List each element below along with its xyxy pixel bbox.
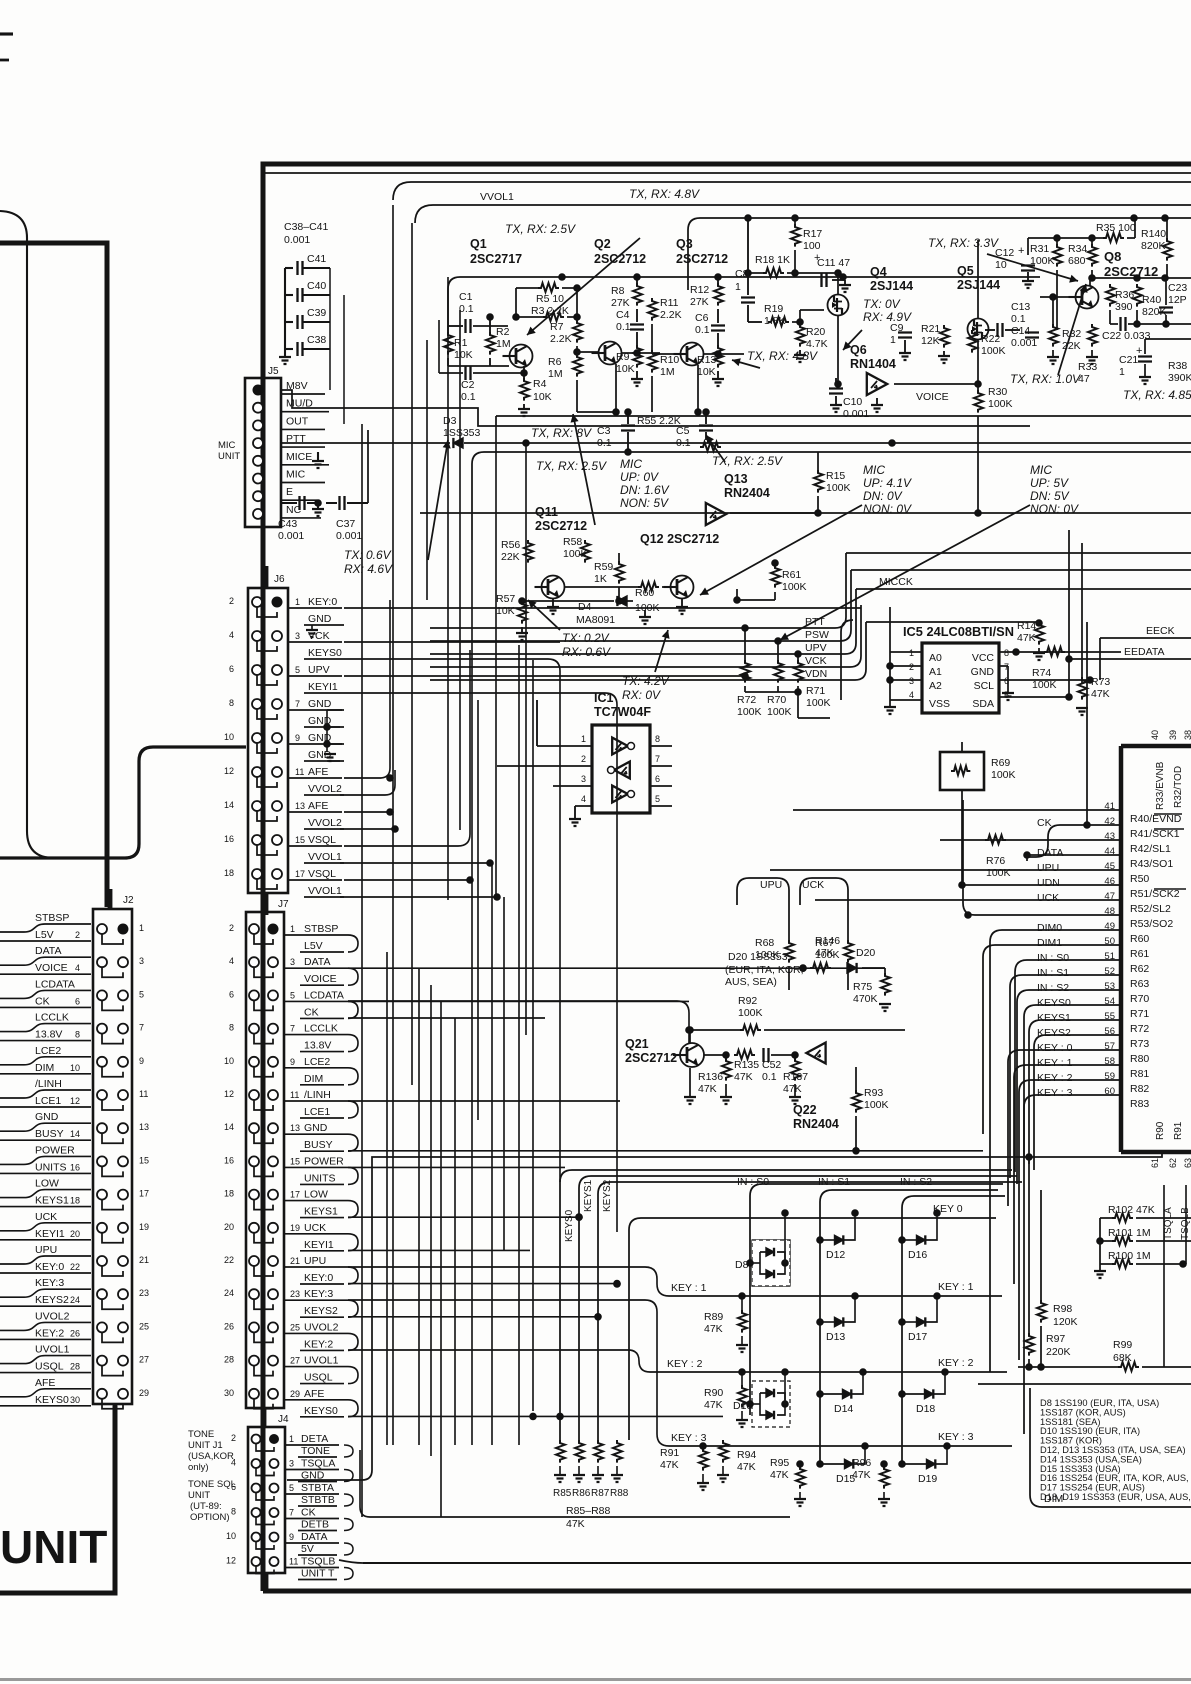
wire IC pin54 fan xyxy=(1024,1005,1121,1158)
svg-text:21: 21 xyxy=(139,1255,149,1265)
svg-text:TONE: TONE xyxy=(301,1445,330,1457)
svg-text:Q1: Q1 xyxy=(470,237,487,251)
svg-text:UVOL1: UVOL1 xyxy=(35,1344,70,1356)
svg-text:DIM0: DIM0 xyxy=(1037,922,1062,934)
svg-text:2: 2 xyxy=(229,923,234,933)
wire top bus 3 xyxy=(700,217,1191,219)
ground (D4) xyxy=(644,610,646,616)
wire J7 pair hook 13 xyxy=(348,1134,358,1151)
svg-text:BUSY: BUSY xyxy=(35,1128,64,1140)
svg-text:11: 11 xyxy=(289,1557,298,1567)
ground (R57) xyxy=(521,627,523,632)
resistor R5 10 xyxy=(538,283,559,292)
J7 pin row 27 xyxy=(249,1356,259,1366)
svg-text:R40/EVND: R40/EVND xyxy=(1130,813,1182,825)
wire J7 pair hook 29 xyxy=(348,1400,358,1417)
svg-text:38: 38 xyxy=(1183,730,1191,740)
connector J4 box xyxy=(248,1427,285,1573)
wire J6 VVOL2a xyxy=(340,770,395,795)
wire vertical bus x=460 xyxy=(459,310,461,830)
svg-text:R50: R50 xyxy=(1130,873,1149,885)
svg-text:R95: R95 xyxy=(770,1457,789,1469)
ground (Q12 em) xyxy=(681,599,683,606)
J7 pin row 5 xyxy=(249,990,259,1000)
svg-text:UPV: UPV xyxy=(308,664,330,676)
arrow MIC5V annotation xyxy=(780,505,1030,640)
capacitor C38 xyxy=(298,342,303,356)
svg-text:UVOL2: UVOL2 xyxy=(35,1310,70,1322)
svg-text:R22: R22 xyxy=(981,333,1000,345)
svg-text:1: 1 xyxy=(295,597,300,607)
J2 pin row 13 xyxy=(97,1123,107,1133)
svg-text:RN2404: RN2404 xyxy=(793,1117,839,1131)
wire EECK xyxy=(1100,637,1191,639)
svg-text:15: 15 xyxy=(139,1155,149,1165)
J2 pin row 23 xyxy=(97,1289,107,1299)
svg-text:R41/SCK1: R41/SCK1 xyxy=(1130,828,1180,840)
IC pin overline R40/EVND xyxy=(1154,813,1182,815)
svg-text:KEY:2: KEY:2 xyxy=(304,1338,333,1350)
svg-text:LCE1: LCE1 xyxy=(35,1095,61,1107)
svg-text:C11 47: C11 47 xyxy=(817,257,850,269)
svg-text:TSQLA: TSQLA xyxy=(301,1458,335,1470)
svg-text:R53/SO2: R53/SO2 xyxy=(1130,918,1173,930)
svg-text:TX, RX: 1.0V: TX, RX: 1.0V xyxy=(1010,372,1081,386)
svg-text:(USA,KOR: (USA,KOR xyxy=(188,1451,234,1462)
wire top bus VVOL1 lower xyxy=(415,205,1191,223)
svg-text:KEYS2: KEYS2 xyxy=(602,1179,613,1212)
svg-text:10: 10 xyxy=(995,259,1007,271)
svg-text:4.7K: 4.7K xyxy=(806,338,828,350)
svg-text:100K: 100K xyxy=(806,697,831,709)
svg-text:NON: 0V: NON: 0V xyxy=(863,502,912,516)
ground (C38-C41) xyxy=(284,349,286,356)
svg-text:R30: R30 xyxy=(988,386,1007,398)
svg-text:KEYS1: KEYS1 xyxy=(583,1179,594,1212)
wire J2 bottom stub xyxy=(113,1404,118,1591)
inverter IC1-b xyxy=(614,762,630,779)
J6 pin row 7 xyxy=(252,699,262,709)
svg-text:R32/TOD: R32/TOD xyxy=(1173,766,1184,808)
svg-text:28: 28 xyxy=(70,1362,80,1372)
J2 pin row 5 xyxy=(97,990,107,1000)
wire IC pin48 xyxy=(963,800,1121,915)
svg-text:13: 13 xyxy=(290,1123,300,1133)
wire J6 GND pin2 xyxy=(311,625,313,629)
svg-text:0.1: 0.1 xyxy=(461,391,476,403)
svg-text:6: 6 xyxy=(655,774,660,784)
svg-text:30: 30 xyxy=(224,1388,234,1398)
wire J7 pair hook 3 xyxy=(348,968,358,985)
svg-text:DETA: DETA xyxy=(301,1433,328,1445)
svg-text:CK: CK xyxy=(35,995,50,1007)
svg-text:C43: C43 xyxy=(278,518,297,530)
svg-text:0.001: 0.001 xyxy=(278,530,304,542)
svg-text:47K: 47K xyxy=(566,1518,585,1530)
svg-text:KEY : 0: KEY : 0 xyxy=(1037,1042,1073,1054)
J6 pin row 17 xyxy=(252,869,262,879)
svg-text:30: 30 xyxy=(70,1395,80,1405)
svg-text:R52/SL2: R52/SL2 xyxy=(1130,903,1171,915)
wire rail 622 xyxy=(866,621,1039,623)
svg-text:100K: 100K xyxy=(981,345,1006,357)
wire vertical bus x=431 xyxy=(430,985,432,1456)
capacitor C43 0.001 xyxy=(300,496,305,510)
svg-text:7: 7 xyxy=(139,1023,144,1033)
svg-text:5: 5 xyxy=(290,990,295,1000)
svg-text:R92: R92 xyxy=(738,995,757,1007)
svg-text:DN: 1.6V: DN: 1.6V xyxy=(620,483,670,497)
wire page top-left tick marks xyxy=(0,32,13,35)
svg-text:R72: R72 xyxy=(1130,1023,1149,1035)
connector J7 box xyxy=(246,912,284,1408)
wire J6 VVOL2b xyxy=(340,828,395,830)
svg-text:VOICE: VOICE xyxy=(916,391,949,403)
svg-text:R137: R137 xyxy=(783,1071,808,1083)
resistor R69 (boxed) xyxy=(940,752,984,790)
wire IC pin42 CK xyxy=(1027,825,1121,857)
wire left vertical thin xyxy=(0,867,54,869)
wire DIM rail xyxy=(1019,1383,1191,1385)
resistor R88 47K xyxy=(613,1440,622,1463)
svg-text:R83: R83 xyxy=(1130,1098,1149,1110)
svg-text:2: 2 xyxy=(909,662,914,672)
svg-text:R96: R96 xyxy=(852,1457,871,1469)
svg-text:L5V: L5V xyxy=(35,929,54,941)
wire D10 to KEY2 xyxy=(784,1372,786,1404)
resistor R87 47K xyxy=(594,1440,603,1463)
wire KEY0 rail 602 xyxy=(344,607,861,609)
svg-text:C40: C40 xyxy=(307,280,326,292)
svg-text:C38: C38 xyxy=(307,334,326,346)
svg-text:R56: R56 xyxy=(501,539,520,551)
svg-text:40: 40 xyxy=(1150,730,1160,740)
diode D12 xyxy=(835,1235,844,1244)
wire vertical bus x=472 xyxy=(471,540,473,1445)
svg-text:R36: R36 xyxy=(1115,289,1134,301)
svg-text:R62: R62 xyxy=(1130,963,1149,975)
svg-text:LCE2: LCE2 xyxy=(35,1045,61,1057)
svg-text:R87: R87 xyxy=(591,1488,610,1499)
connector J6 box xyxy=(248,588,288,893)
J2 pin row 7 xyxy=(97,1024,107,1034)
svg-text:10K: 10K xyxy=(496,605,515,617)
svg-text:R73: R73 xyxy=(1130,1038,1149,1050)
svg-text:LCCLK: LCCLK xyxy=(35,1012,69,1024)
svg-text:3: 3 xyxy=(909,676,914,686)
svg-text:5V: 5V xyxy=(301,1543,314,1555)
wire J7 top stub xyxy=(262,893,267,912)
svg-text:5: 5 xyxy=(139,989,144,999)
svg-text:PSW: PSW xyxy=(805,629,829,641)
wire IC pin50 fan xyxy=(983,945,1121,1134)
svg-text:TX: 0V: TX: 0V xyxy=(863,297,901,311)
J2 pin row 19 xyxy=(97,1223,107,1233)
resistor R135 47K xyxy=(734,1050,755,1059)
svg-text:R136: R136 xyxy=(698,1071,723,1083)
wire net PTT xyxy=(430,627,835,629)
svg-text:VCK: VCK xyxy=(805,655,827,667)
svg-text:R98: R98 xyxy=(1053,1303,1072,1315)
wire J7 net extension row 10 xyxy=(348,1100,620,1102)
svg-text:R71: R71 xyxy=(806,685,825,697)
J4 pin row 5 xyxy=(252,1484,261,1493)
svg-text:47K: 47K xyxy=(704,1323,723,1335)
wire thick display link horizontal xyxy=(0,747,246,858)
inverter IC1-c xyxy=(612,786,628,803)
svg-text:VVOL1: VVOL1 xyxy=(308,885,342,897)
wire J6 bottom stub xyxy=(264,893,269,915)
svg-text:J4: J4 xyxy=(278,1414,289,1425)
svg-text:R146: R146 xyxy=(815,935,840,947)
svg-text:STBTA: STBTA xyxy=(301,1482,334,1494)
svg-text:61: 61 xyxy=(1150,1158,1160,1168)
wire J7 net extension row 29 xyxy=(348,1415,723,1417)
resistor R76 100K xyxy=(985,835,1006,844)
connector J2 box xyxy=(93,909,132,1404)
svg-text:10K: 10K xyxy=(697,366,716,378)
ground (R21) xyxy=(943,351,945,355)
svg-text:R58: R58 xyxy=(563,536,582,548)
connector J5 box xyxy=(245,378,281,527)
wire vertical bus x=519 xyxy=(518,645,520,1445)
svg-text:11: 11 xyxy=(295,767,304,777)
svg-text:D16: D16 xyxy=(908,1249,927,1261)
wire J7 pair hook 27 xyxy=(348,1367,358,1384)
wire J6 VSQLb xyxy=(344,879,470,881)
svg-text:6: 6 xyxy=(229,989,234,999)
svg-text:7: 7 xyxy=(289,1508,294,1518)
svg-text:27K: 27K xyxy=(611,297,630,309)
svg-text:KEYI1: KEYI1 xyxy=(35,1228,65,1240)
svg-text:R42/SL1: R42/SL1 xyxy=(1130,843,1171,855)
svg-text:4: 4 xyxy=(75,963,80,973)
svg-text:UP: 0V: UP: 0V xyxy=(620,470,659,484)
svg-text:KEY : 2: KEY : 2 xyxy=(938,1357,974,1369)
svg-text:5: 5 xyxy=(295,665,300,675)
svg-text:LCE2: LCE2 xyxy=(304,1056,330,1068)
svg-text:11: 11 xyxy=(139,1089,148,1099)
svg-text:R99: R99 xyxy=(1113,1339,1132,1351)
wire vertical bus x=441 xyxy=(440,1001,442,1517)
svg-text:CK: CK xyxy=(301,1507,316,1519)
wire J6 GND group xyxy=(327,709,344,711)
svg-text:RX: 4.6V: RX: 4.6V xyxy=(344,562,393,576)
svg-text:1: 1 xyxy=(1119,366,1125,378)
svg-text:24: 24 xyxy=(70,1295,80,1305)
svg-text:5: 5 xyxy=(289,1483,294,1493)
svg-text:R8: R8 xyxy=(611,285,625,297)
svg-text:14: 14 xyxy=(224,800,234,810)
svg-text:MIC: MIC xyxy=(620,457,642,471)
wire J6 AFE1 xyxy=(344,600,390,778)
J6 pin row 15 xyxy=(252,835,262,845)
svg-text:25: 25 xyxy=(290,1322,300,1332)
svg-text:KEY:0: KEY:0 xyxy=(35,1261,64,1273)
svg-text:UCK: UCK xyxy=(802,879,824,891)
svg-text:IN : S2: IN : S2 xyxy=(900,1176,932,1188)
svg-text:R12: R12 xyxy=(690,284,709,296)
svg-text:22: 22 xyxy=(224,1255,234,1265)
svg-text:Q5: Q5 xyxy=(957,264,974,278)
svg-text:Q11: Q11 xyxy=(535,505,558,519)
svg-text:27: 27 xyxy=(139,1355,149,1365)
svg-text:R38: R38 xyxy=(1168,360,1187,372)
svg-text:10K: 10K xyxy=(616,363,635,375)
svg-text:100K: 100K xyxy=(737,706,762,718)
svg-text:10: 10 xyxy=(224,732,234,742)
svg-text:KEYS0: KEYS0 xyxy=(304,1405,338,1417)
svg-text:9: 9 xyxy=(289,1532,294,1542)
svg-text:VVOL1: VVOL1 xyxy=(480,191,514,203)
wire vertical bus x=439 xyxy=(438,320,440,373)
svg-text:D14: D14 xyxy=(834,1403,853,1415)
svg-text:DATA: DATA xyxy=(301,1531,327,1543)
svg-text:3: 3 xyxy=(295,631,300,641)
capacitor C52 0.1 xyxy=(764,1048,769,1062)
svg-text:KEYS1: KEYS1 xyxy=(35,1195,69,1207)
resistor R86 47K xyxy=(575,1440,584,1463)
svg-text:R17: R17 xyxy=(803,228,822,240)
svg-text:STBSP: STBSP xyxy=(35,912,69,924)
ground (IC1 pin4) xyxy=(574,806,576,818)
wire J6 KEYI1 xyxy=(344,693,617,725)
svg-text:R75: R75 xyxy=(853,981,872,993)
svg-text:13: 13 xyxy=(139,1122,149,1132)
svg-text:EECK: EECK xyxy=(1146,625,1175,637)
svg-text:680: 680 xyxy=(1068,255,1086,267)
wire vertical bus x=419 xyxy=(418,968,420,1445)
svg-text:KEYS0: KEYS0 xyxy=(1037,997,1071,1009)
svg-text:Q13: Q13 xyxy=(724,472,748,486)
wire J4 pair hook 5 xyxy=(344,1494,353,1506)
svg-text:R89: R89 xyxy=(704,1311,723,1323)
wire mid rail 513 xyxy=(420,512,1191,514)
svg-text:47K: 47K xyxy=(660,1459,679,1471)
svg-text:10K: 10K xyxy=(533,391,552,403)
svg-text:C8: C8 xyxy=(735,268,749,280)
wire IC pin55 fan xyxy=(1029,1020,1121,1164)
J2 pin row 21 xyxy=(97,1256,107,1266)
svg-text:MIC: MIC xyxy=(218,440,236,451)
IC main microcontroller box xyxy=(1121,746,1191,1152)
svg-text:TSQLB: TSQLB xyxy=(301,1556,335,1568)
svg-text:IN : S0: IN : S0 xyxy=(737,1176,769,1188)
ground (C43) xyxy=(317,503,319,508)
svg-text:RN2404: RN2404 xyxy=(724,486,770,500)
svg-text:NON: 0V: NON: 0V xyxy=(1030,502,1079,516)
wire EEDATA xyxy=(1069,658,1191,660)
J5 pin 4 PTT xyxy=(253,438,263,448)
svg-text:9: 9 xyxy=(290,1057,295,1067)
svg-text:D8: D8 xyxy=(735,1259,749,1271)
J4 pin row 1 xyxy=(252,1435,261,1444)
svg-text:12: 12 xyxy=(226,1556,236,1566)
J2 pin row 11 xyxy=(97,1090,107,1100)
resistor R74 100K xyxy=(1044,647,1065,656)
svg-text:R2: R2 xyxy=(496,326,510,338)
svg-text:R18 1K: R18 1K xyxy=(755,254,790,266)
wire IC pin53 fan xyxy=(1017,990,1121,1184)
svg-text:KEY : 1: KEY : 1 xyxy=(671,1282,707,1294)
svg-text:Q8: Q8 xyxy=(1104,249,1121,264)
svg-text:15: 15 xyxy=(295,835,305,845)
svg-text:KEY : 1: KEY : 1 xyxy=(1037,1057,1073,1069)
svg-text:C6: C6 xyxy=(695,312,709,324)
svg-text:VVOL2: VVOL2 xyxy=(308,783,342,795)
svg-text:10: 10 xyxy=(226,1531,236,1541)
J6 pin row 3 xyxy=(252,631,262,641)
wire J4 pair hook 1 xyxy=(344,1445,353,1457)
svg-text:12P: 12P xyxy=(1168,294,1187,306)
svg-text:2: 2 xyxy=(231,1433,236,1443)
J5 pin 5 MICE xyxy=(253,456,263,466)
svg-text:C37: C37 xyxy=(336,518,355,530)
J7 pin row 21 xyxy=(249,1256,259,1266)
svg-text:18: 18 xyxy=(70,1196,80,1206)
wire J6 UPV xyxy=(344,675,745,677)
DISPLAY UNIT box (left, cut off) xyxy=(0,243,107,907)
svg-text:E: E xyxy=(286,486,293,498)
svg-text:11: 11 xyxy=(290,1090,299,1100)
svg-text:SCL: SCL xyxy=(974,680,995,692)
wire vertical bus x=496 xyxy=(495,426,497,897)
svg-text:KEYS2: KEYS2 xyxy=(1037,1027,1071,1039)
svg-text:2SC2712: 2SC2712 xyxy=(594,252,646,266)
svg-text:KEYS1: KEYS1 xyxy=(304,1206,338,1218)
wire KEY:2 row xyxy=(650,1371,1007,1373)
svg-text:TX, RX: 2.5V: TX, RX: 2.5V xyxy=(712,454,783,468)
svg-text:/LINH: /LINH xyxy=(304,1089,331,1101)
J7 pin row 23 xyxy=(249,1289,259,1299)
ground (R32) xyxy=(1047,357,1059,364)
svg-text:8: 8 xyxy=(1004,648,1009,658)
wire J7 pair hook 15 xyxy=(348,1167,358,1184)
svg-text:R90: R90 xyxy=(704,1387,723,1399)
wire J7 bottom stub xyxy=(262,1408,267,1427)
svg-text:R10: R10 xyxy=(660,354,679,366)
svg-text:R86: R86 xyxy=(572,1488,591,1499)
J6 pin row 9 xyxy=(252,733,262,743)
svg-text:C1: C1 xyxy=(459,291,473,303)
svg-text:D12: D12 xyxy=(826,1249,845,1261)
wire vertical bus x=362 xyxy=(361,424,363,1517)
svg-text:D4: D4 xyxy=(578,601,592,613)
J5 pin 8 NC xyxy=(253,509,263,519)
wire rounded box IC5 region xyxy=(841,620,853,700)
J4 pin row 9 xyxy=(252,1533,261,1542)
svg-text:R88: R88 xyxy=(610,1488,629,1499)
svg-text:R3 2.2K: R3 2.2K xyxy=(531,305,569,317)
svg-text:BUSY: BUSY xyxy=(304,1139,333,1151)
svg-text:R5 10: R5 10 xyxy=(536,293,564,305)
svg-text:6: 6 xyxy=(75,996,80,1006)
svg-text:2: 2 xyxy=(229,596,234,606)
ground (R33) xyxy=(1086,357,1098,364)
wire Q22 output xyxy=(826,1052,856,1054)
svg-text:R72: R72 xyxy=(737,694,756,706)
svg-text:1: 1 xyxy=(581,734,586,744)
svg-text:AUS, SEA): AUS, SEA) xyxy=(725,976,777,988)
wire VCC rail upper xyxy=(430,239,1191,241)
svg-text:GND: GND xyxy=(308,698,332,710)
svg-text:26: 26 xyxy=(224,1321,234,1331)
wire J7 pair hook 25 xyxy=(348,1333,358,1350)
svg-text:UCK: UCK xyxy=(1037,892,1059,904)
svg-text:UPU: UPU xyxy=(1037,862,1059,874)
inverter IC1-a xyxy=(612,738,628,755)
svg-text:DIM1: DIM1 xyxy=(1037,937,1062,949)
